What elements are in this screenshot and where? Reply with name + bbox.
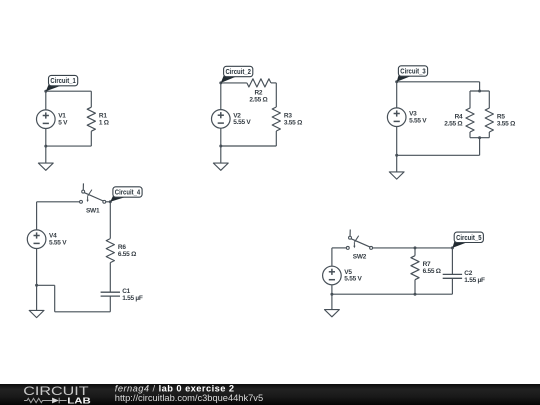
junction xyxy=(219,145,222,148)
node Circuit_1 flag xyxy=(46,83,62,91)
wire xyxy=(396,127,398,156)
wire xyxy=(36,249,38,286)
wire xyxy=(469,91,471,108)
svg-text:1.55 µF: 1.55 µF xyxy=(464,277,485,284)
svg-text:1.55 µF: 1.55 µF xyxy=(122,295,143,302)
capacitor C2 xyxy=(443,274,462,278)
svg-text:Circuit_1: Circuit_1 xyxy=(50,76,75,85)
svg-text:SW2: SW2 xyxy=(353,253,367,260)
node Circuit_3 junction xyxy=(395,80,398,83)
voltage source V3 xyxy=(387,108,406,127)
svg-text:SW1: SW1 xyxy=(86,207,100,214)
wire xyxy=(451,278,453,294)
svg-text:C1: C1 xyxy=(122,288,130,295)
wire xyxy=(479,82,481,91)
wire xyxy=(332,247,346,249)
voltage source V1 xyxy=(37,110,56,129)
wire xyxy=(90,131,92,146)
wire xyxy=(220,146,222,163)
svg-text:R5: R5 xyxy=(497,113,505,120)
wire xyxy=(109,263,111,293)
wire xyxy=(37,284,55,286)
svg-text:R1: R1 xyxy=(99,113,107,120)
junction xyxy=(330,293,333,296)
svg-text:R4: R4 xyxy=(455,113,463,120)
wire xyxy=(414,280,416,295)
voltage source V4 xyxy=(27,230,46,249)
junction xyxy=(35,284,38,287)
svg-text:fernag4 / lab 0 exercise 2: fernag4 / lab 0 exercise 2 xyxy=(115,383,235,393)
wire xyxy=(414,248,416,256)
wire xyxy=(470,90,489,92)
wire xyxy=(54,285,56,312)
wire xyxy=(221,82,247,84)
wire xyxy=(397,154,480,156)
node Circuit_3 box xyxy=(398,66,427,76)
svg-text:C2: C2 xyxy=(464,270,472,277)
ground 5 xyxy=(325,310,340,317)
wire xyxy=(109,202,111,239)
wire xyxy=(331,285,333,294)
wire xyxy=(275,131,277,146)
wire xyxy=(331,248,333,266)
wire xyxy=(90,91,92,107)
wire xyxy=(332,293,453,295)
wire xyxy=(271,82,276,84)
node Circuit_5 box xyxy=(454,232,483,242)
wire xyxy=(221,145,276,147)
junction xyxy=(414,246,417,249)
junction xyxy=(478,136,481,139)
resistor R2 xyxy=(247,79,271,87)
wire xyxy=(470,137,489,139)
node Circuit_3 flag xyxy=(397,74,412,82)
svg-text:R7: R7 xyxy=(423,261,431,268)
junction xyxy=(395,154,398,157)
wire xyxy=(46,90,92,92)
resistor R6 xyxy=(106,239,114,263)
node Circuit_5 junction xyxy=(451,246,454,249)
node Circuit_4 junction xyxy=(109,200,112,203)
junction xyxy=(478,90,481,93)
resistor R3 xyxy=(272,107,280,131)
wire xyxy=(46,145,92,147)
svg-text:R3: R3 xyxy=(284,112,292,119)
resistor R7 xyxy=(411,256,419,280)
svg-text:3.55 Ω: 3.55 Ω xyxy=(497,120,515,127)
svg-text:Circuit_5: Circuit_5 xyxy=(456,233,481,242)
wire xyxy=(396,82,398,108)
node Circuit_1 box xyxy=(49,75,78,85)
svg-text:2.55 Ω: 2.55 Ω xyxy=(249,96,267,103)
svg-text:5.55 V: 5.55 V xyxy=(49,239,67,246)
node Circuit_4 flag xyxy=(110,195,126,202)
node Circuit_2 flag xyxy=(221,74,237,83)
svg-text:6.55 Ω: 6.55 Ω xyxy=(423,268,441,275)
wire xyxy=(220,83,222,110)
wire xyxy=(45,91,47,110)
svg-text:R6: R6 xyxy=(118,244,126,251)
voltage source V2 xyxy=(212,110,231,129)
svg-text:2.55 Ω: 2.55 Ω xyxy=(444,120,462,127)
wire xyxy=(331,294,333,309)
node Circuit_5 flag xyxy=(452,240,467,248)
wire xyxy=(479,138,481,156)
node Circuit_2 junction xyxy=(219,81,222,84)
wire xyxy=(488,132,490,138)
resistor R5 xyxy=(485,108,493,132)
wire xyxy=(36,285,38,310)
capacitor C1 xyxy=(101,292,120,296)
svg-text:LAB: LAB xyxy=(67,395,91,405)
switch SW2 xyxy=(346,230,372,250)
wire xyxy=(451,248,453,275)
wire xyxy=(488,91,490,108)
svg-text:Circuit_2: Circuit_2 xyxy=(226,67,251,76)
ground 4 xyxy=(29,310,44,317)
node Circuit_4 box xyxy=(113,187,142,197)
wire xyxy=(396,155,398,172)
ground 3 xyxy=(389,172,404,179)
wire xyxy=(45,146,47,163)
svg-text:5.55 V: 5.55 V xyxy=(409,117,427,124)
node Circuit_2 box xyxy=(224,66,253,76)
svg-text:1 Ω: 1 Ω xyxy=(99,120,109,127)
node Circuit_1 junction xyxy=(44,90,47,93)
ground 1 xyxy=(38,163,53,170)
svg-text:Circuit_3: Circuit_3 xyxy=(400,67,425,76)
svg-text:6.55 Ω: 6.55 Ω xyxy=(118,251,136,258)
svg-text:3.55 Ω: 3.55 Ω xyxy=(284,119,302,126)
wire xyxy=(37,201,80,203)
wire xyxy=(55,311,111,313)
CircuitLab logo resistor-diode glyph xyxy=(24,398,67,404)
resistor R4 xyxy=(466,108,474,132)
svg-text:5 V: 5 V xyxy=(58,119,68,126)
junction xyxy=(414,293,417,296)
ground 2 xyxy=(213,163,228,170)
wire xyxy=(275,83,277,107)
wire xyxy=(45,129,47,147)
wire xyxy=(397,81,480,83)
wire xyxy=(373,247,453,249)
wire xyxy=(220,128,222,146)
junction xyxy=(44,145,47,148)
svg-text:5.55 V: 5.55 V xyxy=(344,276,362,283)
voltage source V5 xyxy=(323,266,342,285)
svg-text:Circuit_4: Circuit_4 xyxy=(115,188,141,197)
wire xyxy=(106,201,111,203)
switch SW1 xyxy=(80,183,106,203)
resistor R1 xyxy=(87,107,95,131)
wire xyxy=(469,132,471,138)
svg-text:http://circuitlab.com/c3bque44: http://circuitlab.com/c3bque44hk7v5 xyxy=(115,393,263,403)
wire xyxy=(36,202,38,230)
svg-text:5.55 V: 5.55 V xyxy=(233,119,251,126)
wire xyxy=(109,296,111,312)
